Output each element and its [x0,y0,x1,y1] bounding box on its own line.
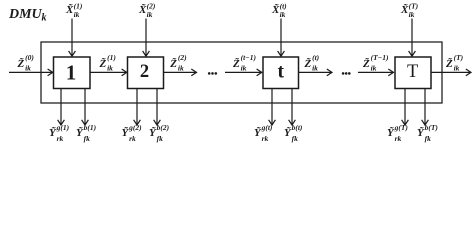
svg-text:k: k [42,12,47,23]
stage box t [263,57,299,89]
link arrow Z^(t-1) [225,69,262,76]
svg-text:b(t): b(t) [292,123,303,132]
link arrow Z^(1) [90,69,127,76]
input arrow X stage 1 [69,19,76,57]
label Y~_rk^g(1) [49,123,70,143]
output arrow Y gt [269,89,276,126]
svg-text:ik: ik [178,63,184,72]
svg-text:b(T): b(T) [425,123,439,132]
label X~_ik^(2) [138,2,156,20]
label Z~_ik^(T) [445,53,464,73]
svg-text:ik: ik [25,63,31,72]
ellipsis dots right [342,72,351,75]
input arrow X stage 2 [143,19,150,57]
label X~_ik^(T) [400,2,419,20]
stage box T [395,57,431,89]
svg-text:(t−1): (t−1) [241,53,257,62]
svg-text:(t): (t) [312,53,320,62]
svg-text:g(t): g(t) [261,123,273,132]
svg-text:2: 2 [140,62,149,82]
svg-text:T: T [407,62,418,82]
svg-text:rk: rk [129,134,136,143]
svg-text:Z̃: Z̃ [17,57,25,70]
svg-text:rk: rk [395,134,402,143]
label Z~_ik^(1) [99,53,117,73]
output arrow Y b1 [82,89,89,126]
svg-text:g(1): g(1) [56,123,70,132]
ellipsis dots left [208,72,217,75]
svg-text:Z̃: Z̃ [304,57,312,70]
link arrow Z^(2) [164,69,197,76]
svg-text:g(2): g(2) [128,123,142,132]
label Z~_ik^(T-1) [362,53,389,73]
stage box 2 [128,57,164,89]
input arrow X stage t [278,19,285,57]
label X~_ik^(1) [65,2,83,20]
svg-text:b(2): b(2) [157,123,170,132]
svg-text:ik: ik [107,63,113,72]
label Y~_fk^b(t) [284,123,303,143]
output arrow Y g2 [134,89,141,126]
svg-text:fk: fk [157,134,163,143]
svg-text:(T): (T) [454,53,464,62]
svg-text:rk: rk [57,134,64,143]
svg-text:ik: ik [409,10,415,19]
svg-text:ik: ik [371,63,377,72]
label Z~_ik^(t) [304,53,320,73]
svg-text:DMU: DMU [8,7,43,22]
label Y~_rk^g(t) [254,123,273,143]
output arrow Y g1 [58,89,65,126]
svg-text:(2): (2) [178,53,187,62]
svg-text:Z̃: Z̃ [362,57,370,70]
svg-text:fk: fk [425,134,431,143]
output arrow Y gT [402,89,409,126]
label Z~_ik^(0) [17,53,35,73]
label Y~_fk^b(1) [76,123,97,143]
label Y~_rk^g(T) [387,123,408,143]
link arrow Z^(t) [299,69,333,76]
svg-text:ik: ik [454,63,460,72]
input arrow X stage T [409,19,416,57]
stage box 1 [54,57,91,89]
svg-text:(T−1): (T−1) [371,53,389,62]
output arrow Z^(T) [431,69,471,76]
svg-text:ik: ik [147,10,153,19]
svg-text:ik: ik [241,63,247,72]
svg-text:fk: fk [84,134,90,143]
label Z~_ik^(t-1) [232,53,256,73]
svg-text:ik: ik [74,10,80,19]
output arrow Y bT [422,89,429,126]
svg-text:Z̃: Z̃ [445,57,453,70]
output arrow Y bt [289,89,296,126]
svg-text:(0): (0) [25,53,34,62]
label Z~_ik^(2) [169,53,187,73]
svg-text:ik: ik [312,63,318,72]
svg-text:b(1): b(1) [84,123,97,132]
label Y~_fk^b(T) [417,123,438,143]
link arrow Z^(T-1) [358,69,394,76]
svg-text:Z̃: Z̃ [169,57,177,70]
svg-text:fk: fk [292,134,298,143]
svg-text:Z̃: Z̃ [232,57,240,70]
svg-text:1: 1 [66,61,77,85]
input arrow Z^(0) [9,69,53,76]
system boundary rectangle [41,42,442,103]
label Y~_fk^b(2) [149,123,170,143]
label Y~_rk^g(2) [122,123,143,143]
svg-text:g(T): g(T) [394,123,409,132]
svg-text:ik: ik [280,10,286,19]
svg-text:rk: rk [262,134,269,143]
svg-text:t: t [278,62,285,83]
svg-text:(1): (1) [107,53,116,62]
label X~_ik^(t) [271,2,287,20]
output arrow Y b2 [154,89,161,126]
svg-text:Z̃: Z̃ [99,57,107,70]
title DMU_k [8,7,47,23]
